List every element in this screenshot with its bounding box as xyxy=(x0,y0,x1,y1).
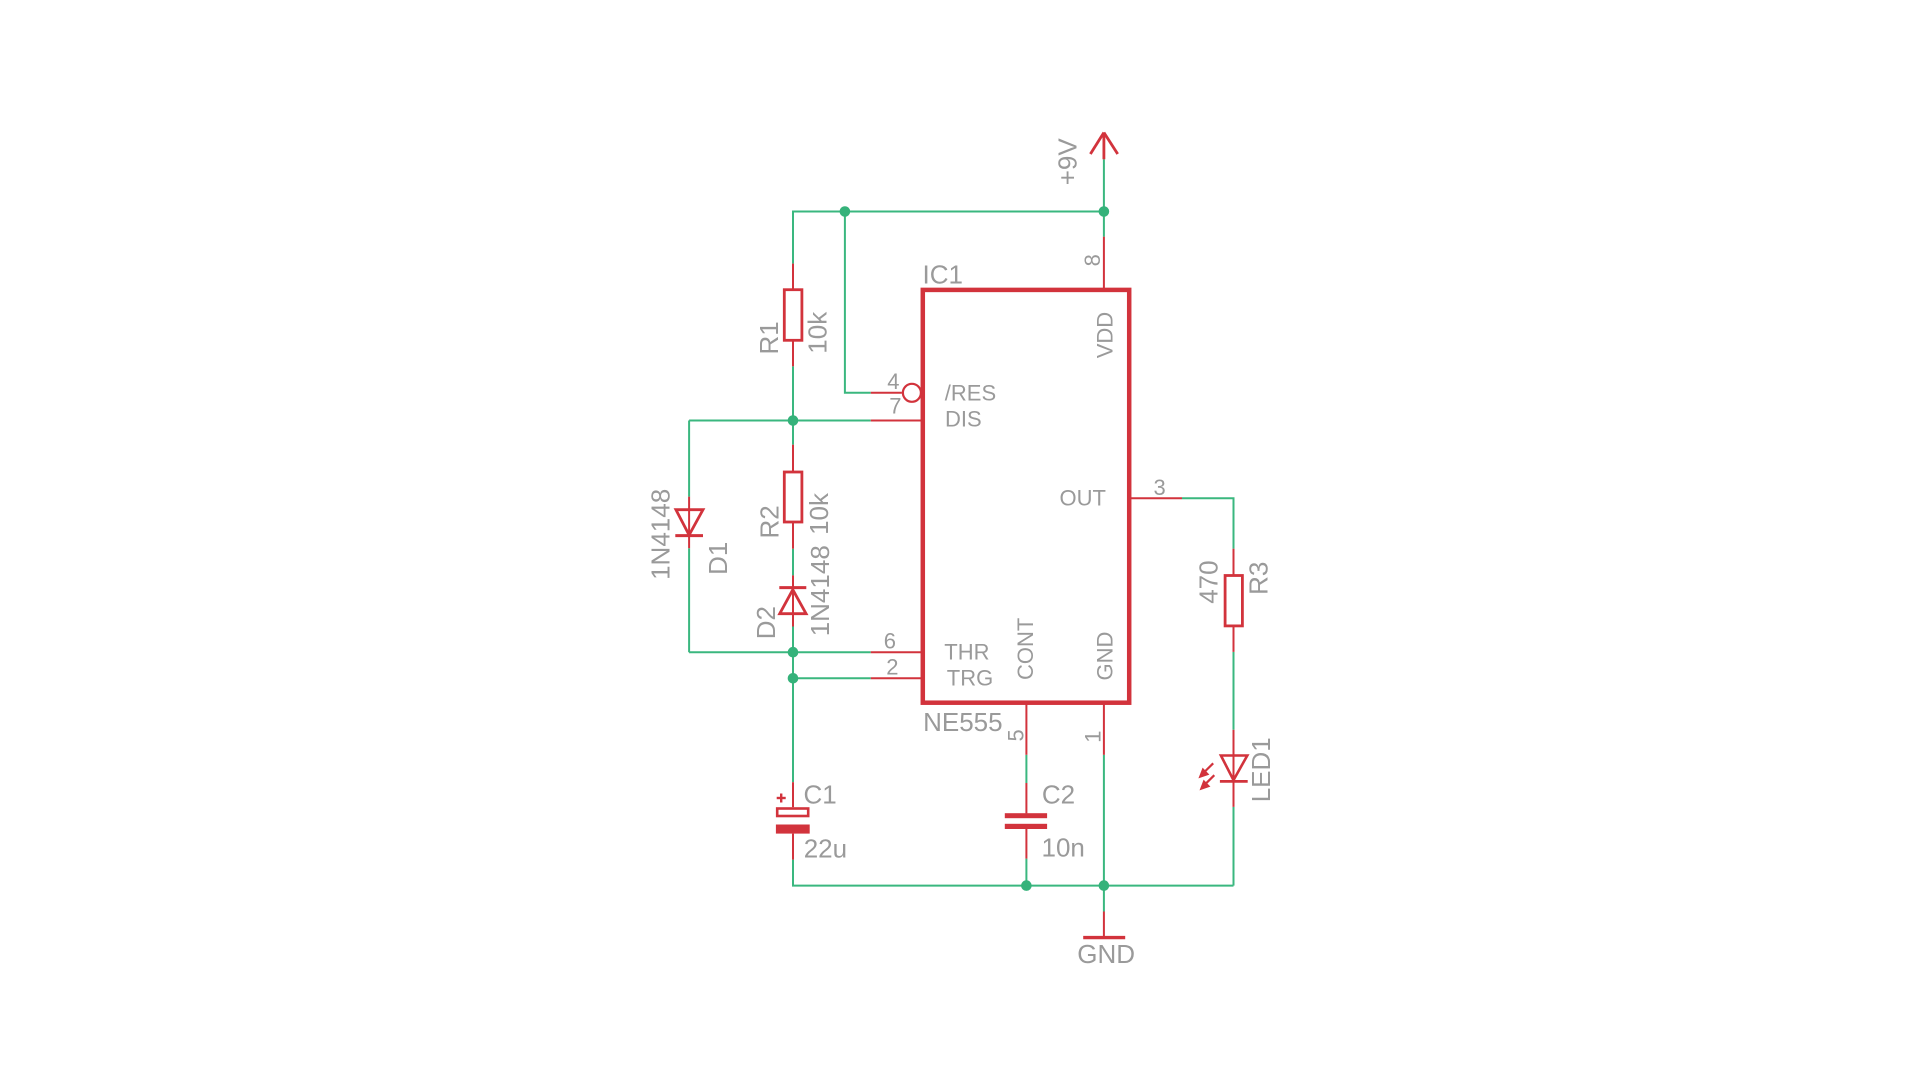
svg-text:8: 8 xyxy=(1080,254,1105,266)
svg-text:NE555: NE555 xyxy=(923,707,1003,737)
svg-text:THR: THR xyxy=(944,640,989,665)
wire C2 bottom to ground rail xyxy=(1025,859,1027,886)
pin 2 TRG stub xyxy=(871,677,922,679)
resistor R2 xyxy=(784,445,802,549)
svg-text:C2: C2 xyxy=(1042,780,1075,810)
node junction GND / ground rail xyxy=(1099,880,1110,891)
pin 5 CONT stub xyxy=(1025,703,1027,755)
op-amp IC1 NE555 body xyxy=(923,290,1129,703)
svg-text:10n: 10n xyxy=(1042,832,1085,862)
svg-text:R3: R3 xyxy=(1243,562,1273,595)
svg-text:10k: 10k xyxy=(804,492,834,535)
wire top rail from R1 corner to +9V column xyxy=(793,212,1104,264)
capacitor C2 xyxy=(1005,783,1047,859)
svg-text:470: 470 xyxy=(1194,560,1224,603)
wire OUT to R3 xyxy=(1182,498,1234,548)
wire THR to TRG junction xyxy=(792,652,794,678)
wire DIS junction down to R2 xyxy=(792,421,794,445)
svg-text:5: 5 xyxy=(1003,729,1028,741)
wire pin 5 to C2 xyxy=(1025,755,1027,783)
wire +9V vertical xyxy=(1103,159,1105,236)
svg-text:10k: 10k xyxy=(802,311,832,354)
node junction THR xyxy=(788,647,799,658)
svg-text:C1: C1 xyxy=(804,780,837,810)
wire pin 1 down to ground rail xyxy=(1103,755,1105,886)
svg-text:1N4148: 1N4148 xyxy=(805,545,835,636)
ground symbol xyxy=(1083,912,1125,938)
pin 8 VDD stub xyxy=(1103,237,1105,288)
wire R1 bottom to DIS junction xyxy=(792,366,794,420)
svg-text:1N4148: 1N4148 xyxy=(645,489,675,580)
node junction TRG xyxy=(788,673,799,684)
pin 1 GND stub xyxy=(1103,703,1105,755)
node junction top rail / +9V xyxy=(1099,206,1110,217)
svg-text:GND: GND xyxy=(1092,632,1117,681)
node junction C2 / ground rail xyxy=(1021,880,1032,891)
svg-text:4: 4 xyxy=(887,369,899,394)
pin 3 OUT stub xyxy=(1130,497,1182,499)
wire THR horizontal xyxy=(689,651,871,653)
svg-text:LED1: LED1 xyxy=(1246,737,1276,802)
svg-text:1: 1 xyxy=(1080,731,1105,743)
svg-text:GND: GND xyxy=(1077,939,1135,969)
svg-text:TRG: TRG xyxy=(947,666,993,691)
svg-text:OUT: OUT xyxy=(1060,486,1106,511)
svg-text:2: 2 xyxy=(886,655,898,680)
wire R3 to LED1 xyxy=(1233,652,1235,730)
wire LED1 to ground rail xyxy=(1233,807,1235,886)
svg-text:22u: 22u xyxy=(804,834,847,864)
svg-text:DIS: DIS xyxy=(945,407,982,432)
wire R2 bottom to D2 xyxy=(792,549,794,576)
resistor R1 xyxy=(784,264,802,367)
LED LED1 xyxy=(1198,730,1247,807)
supply +9V arrow xyxy=(1090,133,1117,160)
svg-text:/RES: /RES xyxy=(945,381,996,406)
wire DIS horizontal xyxy=(689,420,871,422)
wire from top rail down to pin 4 xyxy=(845,212,871,393)
wire TRG down to C1 xyxy=(792,678,794,782)
wire ground rail to GND symbol xyxy=(1103,886,1105,912)
pin 4 /RES stub with inverting bubble xyxy=(871,392,902,394)
svg-text:R1: R1 xyxy=(754,321,784,354)
svg-text:VDD: VDD xyxy=(1092,312,1117,358)
diode D1 xyxy=(675,497,703,549)
node junction top rail / pin4 branch xyxy=(840,206,851,217)
wire left branch down through D1 xyxy=(688,421,690,497)
wire C1 bottom and ground rail xyxy=(793,860,1234,886)
capacitor C1 polarized xyxy=(776,782,810,859)
svg-text:+9V: +9V xyxy=(1052,138,1082,186)
wire D2 bottom to THR junction xyxy=(792,627,794,653)
pin 7 DIS stub xyxy=(871,420,922,422)
svg-text:6: 6 xyxy=(884,629,896,654)
svg-text:IC1: IC1 xyxy=(923,260,963,290)
svg-text:CONT: CONT xyxy=(1013,618,1038,680)
svg-text:R2: R2 xyxy=(754,505,784,538)
svg-text:7: 7 xyxy=(889,394,901,419)
svg-text:D1: D1 xyxy=(703,542,733,575)
node junction DIS xyxy=(788,415,799,426)
resistor R3 xyxy=(1225,549,1242,652)
diode D2 xyxy=(779,575,806,626)
pin 6 THR stub xyxy=(871,651,922,653)
wire TRG horizontal xyxy=(793,677,871,679)
svg-text:3: 3 xyxy=(1154,475,1166,500)
svg-text:D2: D2 xyxy=(751,606,781,639)
wire D1 bottom to THR rail xyxy=(688,548,690,652)
